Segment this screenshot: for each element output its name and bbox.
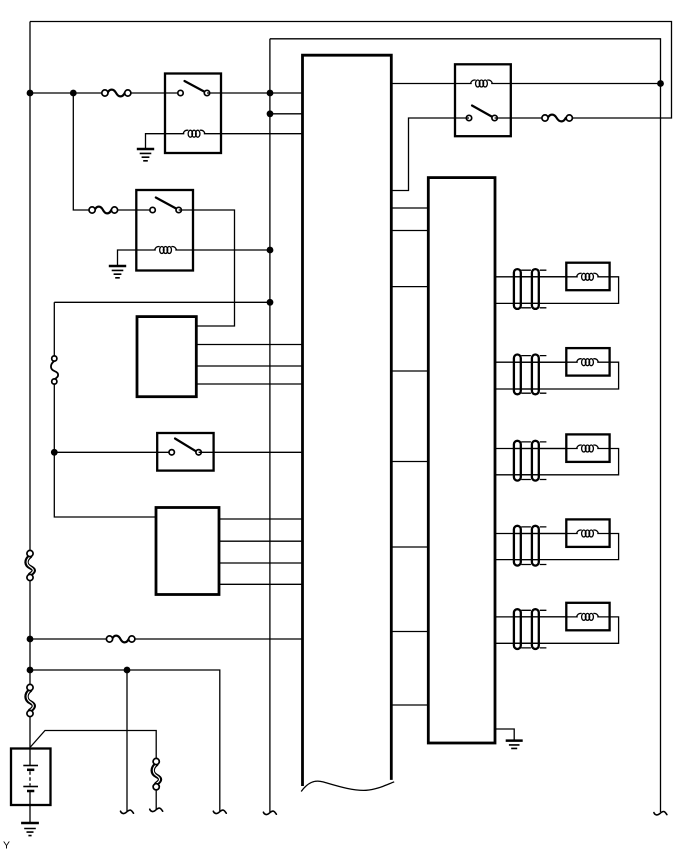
ignition coil transformer T3 core (dashed) <box>521 442 546 480</box>
node: junction at (127,670) <box>124 667 131 674</box>
ignition coil transformer T5 primary line through capsules <box>514 617 566 643</box>
wire: box B1 pin 3 to ECU <box>196 383 302 385</box>
connector end pigtail at x=660 <box>654 811 667 814</box>
wire: switch S2 output to ECU <box>199 451 303 453</box>
ECU main box (central, torn bottom) <box>303 55 392 786</box>
wire: relay R2 coil leads <box>118 250 271 266</box>
noise filter box L4 <box>566 519 609 547</box>
svg-text:Y: Y <box>3 840 10 852</box>
node: junction at (270,93) <box>267 90 274 97</box>
wire: vertical rail x=270 <box>269 39 271 812</box>
wire: filter L5 input inside box <box>566 616 609 618</box>
box B1 (sensor unit) <box>137 317 196 397</box>
ignition coil transformer T5 winding capsule left <box>514 609 521 649</box>
relay R2 switch blade <box>156 198 177 210</box>
node: junction at (270,250) <box>267 247 274 254</box>
ignition coil transformer T5 core (dashed) <box>521 610 546 648</box>
ignition coil transformer T2 winding capsule right <box>532 355 539 395</box>
fusible link FL4 <box>153 758 160 790</box>
fuse F1 (circle-wave-circle) <box>102 90 131 97</box>
wire: stub from rail x=270 into ECU at y=113.8 <box>270 113 303 115</box>
ignition coil transformer T5 winding capsule right <box>532 609 539 649</box>
wire: box B2 pin 3 to ECU <box>219 562 303 564</box>
relay R2 box <box>136 190 193 271</box>
relay R1 switch blade <box>185 81 206 92</box>
ignition coil transformer T3 winding capsule right <box>532 441 539 481</box>
ignition coil transformer T2 primary line through capsules <box>514 362 566 389</box>
wire: left rail vertical x=30 (battery feed) <box>29 22 31 749</box>
node: junction at (30,93) <box>27 90 34 97</box>
wire: box B2 pin 1 to ECU <box>219 518 303 520</box>
node: junction at (30,670) <box>27 667 34 674</box>
wire: relay R2 switch output down to box B1 <box>179 210 235 326</box>
wire: filter L2 input inside box <box>566 361 609 363</box>
wire: box B1 pin 1 to ECU <box>196 344 302 346</box>
relay R3 switch blade <box>472 106 493 118</box>
ignition coil unit 3: primary feed wire <box>495 448 566 450</box>
ignition coil transformer T4 winding capsule right <box>532 526 539 566</box>
switch S2 box <box>157 433 213 471</box>
coil of relay R1 <box>183 130 205 137</box>
switch S2 contacts <box>169 450 201 455</box>
wire: fused line y=639 from left rail to ECU <box>30 638 303 640</box>
wire: box B2 pin 2 to ECU <box>219 540 303 542</box>
ignition coil transformer T1 core (dashed) <box>521 270 546 308</box>
battery BAT box <box>11 749 51 806</box>
ignition coil transformer T2 winding capsule left <box>514 355 521 395</box>
ground for igniter <box>495 729 523 748</box>
coil of noise filter L5 <box>577 613 599 620</box>
fuse F5 <box>542 115 573 122</box>
wire: relay R1 feed line y=93 <box>30 92 181 94</box>
ignition coil transformer T1 primary line through capsules <box>514 277 566 304</box>
fusible link FL2 on left rail <box>27 550 34 580</box>
wire: filter L1 input inside box <box>566 276 609 278</box>
noise filter box L3 <box>566 434 609 462</box>
wire: relay R3 coil line from ECU to right rail <box>391 83 660 85</box>
fuse F3 <box>106 636 134 643</box>
ignition coil transformer T4 core (dashed) <box>521 527 546 565</box>
wire: relay R1 coil leads <box>146 134 303 149</box>
ignition coil unit 2: primary feed wire <box>495 361 566 363</box>
relay R3 box (top right) <box>455 64 511 136</box>
node: junction at (73.3,93) <box>70 90 77 97</box>
coil of noise filter L2 <box>577 359 599 366</box>
ignition coil transformer T1 winding capsule left <box>514 269 521 309</box>
ignition coil unit 2: return loop wire <box>495 362 619 389</box>
wire: drop x=127 to connector end <box>126 670 128 811</box>
coil of relay R2 <box>155 246 177 253</box>
battery internal plates <box>23 749 38 824</box>
connector end pigtail at x=127 <box>121 810 134 813</box>
wire: line at y=302 from x=54 corner to rail x=270 <box>54 301 270 303</box>
coil of noise filter L3 <box>577 445 599 452</box>
coil of relay R3 <box>470 80 492 87</box>
relay R1 switch contacts <box>178 90 210 95</box>
ECU torn bottom wavy edge <box>301 781 394 791</box>
wire: relay R3 switch left pin into ECU right edge <box>391 118 469 191</box>
connector end pigtail at x=156 <box>150 808 163 811</box>
wire: feed to switch S2 <box>54 451 171 453</box>
ignition coil transformer T4 winding capsule left <box>514 526 521 566</box>
coil of noise filter L1 <box>577 273 599 280</box>
ignition coil unit 4: return loop wire <box>495 534 619 560</box>
ignition coil transformer T2 core (dashed) <box>521 356 546 394</box>
relay R3 switch contacts <box>466 115 497 120</box>
connector end pigtail at x=270 <box>263 811 276 814</box>
wire: stub ECU to igniter pin row <box>391 208 428 705</box>
ground for battery <box>21 823 39 836</box>
ignition coil unit 5: return loop wire <box>495 617 619 643</box>
node: junction at (270,302.3) <box>267 299 274 306</box>
node: junction at (660.5,83.5) <box>657 80 664 87</box>
connector end pigtail at x=220 <box>213 810 226 813</box>
relay R2 switch contacts <box>150 207 181 212</box>
fuse F2 <box>89 207 118 214</box>
ignition coil transformer T3 primary line through capsules <box>514 449 566 475</box>
noise filter box L1 <box>566 263 609 291</box>
noise filter box L5 <box>566 603 609 631</box>
ignition coil transformer T4 primary line through capsules <box>514 534 566 560</box>
wire: line y=670 to connector drops <box>30 670 220 811</box>
coil of noise filter L4 <box>577 530 599 537</box>
ground for relay R2 coil <box>109 266 126 278</box>
wire: battery positive feed diagonal and branch to FL4 drop <box>30 731 156 810</box>
igniter box (tall right box) <box>428 178 495 743</box>
wire: box B1 pin 2 to ECU <box>196 365 302 367</box>
wire: line B top (feeds relay R3 coil circuit and right rail) <box>270 39 661 812</box>
ignition coil unit 1: return loop wire <box>495 277 619 304</box>
ignition coil unit 3: return loop wire <box>495 449 619 475</box>
box B2 (sensor unit lower) <box>156 508 219 595</box>
wire: box B2 pin 4 to ECU <box>219 583 303 585</box>
ignition coil transformer T1 winding capsule right <box>532 269 539 309</box>
wire: filter L3 input inside box <box>566 448 609 450</box>
wire: x=54 branch with fusible link FL1, switch S2 feed, down to box B2 <box>54 302 156 517</box>
ignition coil unit 1: primary feed wire <box>495 276 566 278</box>
wire: relay R1 switch output to ECU <box>207 92 303 94</box>
node: junction at (30,639) <box>27 636 34 643</box>
wire: relay R3 switch right pin to fuse F5 <box>495 117 545 119</box>
relay R1 box <box>165 74 221 154</box>
fusible link FL1 <box>51 356 58 384</box>
ignition coil unit 4: primary feed wire <box>495 533 566 535</box>
noise filter box L2 <box>566 348 609 376</box>
switch S2 blade <box>175 439 196 452</box>
wire: filter L4 input inside box <box>566 533 609 535</box>
ground for relay R1 coil <box>137 149 154 161</box>
wire: top feed line A from left rail to right side down to fuse F5 <box>30 22 672 119</box>
node: junction at (270,113.8) <box>267 110 274 117</box>
ignition coil unit 5: primary feed wire <box>495 616 566 618</box>
node: junction at (54.3,452.3) <box>51 449 58 456</box>
fusible link FL3 on left rail <box>27 684 34 716</box>
wire: feed to relay R2 via x=73.3 <box>73 93 152 210</box>
ignition coil transformer T3 winding capsule left <box>514 441 521 481</box>
